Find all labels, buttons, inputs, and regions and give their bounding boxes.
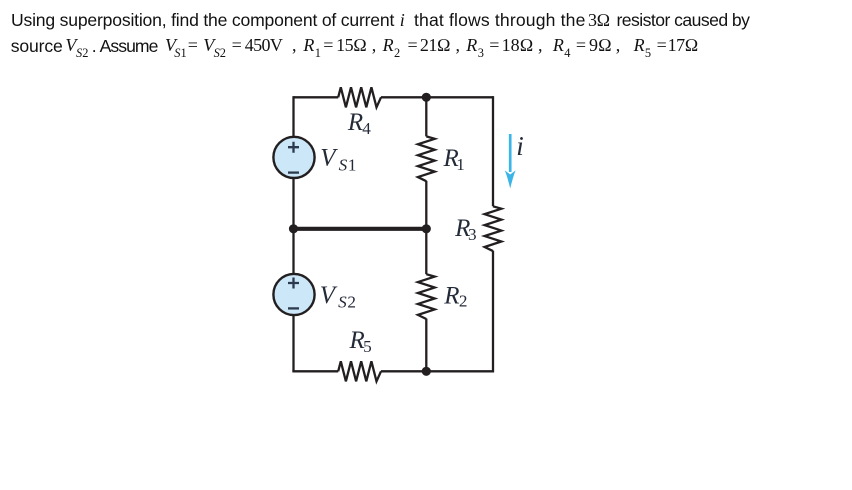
svg-text:3: 3 [468,225,477,244]
node junction dot bottom [422,367,431,376]
svg-text:4: 4 [362,119,371,138]
voltage source VS1 [273,137,314,178]
wire right rail upper [492,96,494,206]
wire middle branch lower [425,319,427,372]
svg-text:S: S [339,155,348,174]
VS1 minus sign [288,171,299,173]
svg-text:1: 1 [348,155,357,174]
wire bottom-right horizontal [381,370,493,372]
svg-text:i: i [516,131,524,161]
VS2 plus sign [288,278,299,289]
resistor R4 [338,87,381,107]
svg-text:V: V [320,145,338,172]
resistor R5 [338,361,381,381]
current arrow i [505,134,516,189]
svg-text:R: R [347,109,363,136]
node junction dot top [422,93,431,102]
wire right rail lower [492,251,494,373]
svg-text:2: 2 [347,293,356,312]
wire middle branch upper [425,97,427,136]
svg-text:5: 5 [363,337,372,356]
wire top-left horizontal [294,96,339,98]
node junction dot middle [422,224,431,233]
wire middle horizontal thick [294,227,427,231]
svg-text:1: 1 [456,155,465,174]
wire middle branch between R1 and middle node [425,181,427,229]
svg-text:V: V [320,282,338,309]
svg-text:R: R [443,283,459,310]
wire left rail upper [292,96,294,137]
wire bottom-left horizontal [292,370,338,372]
problem text line 2 [11,38,63,56]
resistor R1 [418,136,435,181]
wire top-right horizontal [381,96,493,98]
wire left rail between sources [292,178,294,275]
svg-text:2: 2 [459,292,468,311]
resistor R3 [485,206,502,251]
voltage source VS2 [273,274,314,315]
VS2 minus sign [288,307,299,309]
resistor R2 [418,274,435,319]
problem text line 1 [11,12,394,30]
svg-text:S: S [338,293,347,312]
VS1 plus sign [288,142,299,153]
node junction dot middle-left [289,224,298,233]
wire left rail lower [292,315,294,372]
wire middle branch between node and R2 [425,229,427,274]
